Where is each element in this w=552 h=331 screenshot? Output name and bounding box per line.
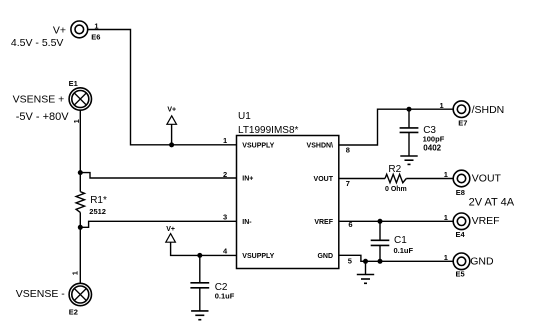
svg-text:E1: E1 [69,79,78,88]
svg-text:GND: GND [317,253,333,260]
svg-text:5: 5 [348,256,352,265]
svg-text:C1: C1 [394,235,407,246]
svg-text:VSUPPLY: VSUPPLY [242,253,274,260]
svg-text:1: 1 [444,170,448,179]
svg-text:E4: E4 [456,230,466,239]
svg-text:2V AT 4A: 2V AT 4A [469,197,515,209]
svg-text:VSUPPLY: VSUPPLY [242,143,274,150]
svg-text:E5: E5 [456,270,465,279]
svg-text:IN+: IN+ [242,176,253,183]
svg-text:E2: E2 [69,307,78,316]
svg-text:E8: E8 [456,188,465,197]
svg-text:/SHDN: /SHDN [472,104,505,116]
svg-text:VSENSE +: VSENSE + [13,94,65,106]
svg-text:4.5V - 5.5V: 4.5V - 5.5V [11,37,64,49]
svg-text:0.1uF: 0.1uF [215,292,235,301]
svg-text:V+: V+ [53,24,66,36]
svg-text:V+: V+ [167,106,176,113]
svg-text:VOUT: VOUT [472,173,502,185]
svg-text:1: 1 [440,101,444,110]
svg-text:-5V - +80V: -5V - +80V [16,111,70,123]
svg-text:1: 1 [72,119,81,123]
svg-text:VOUT: VOUT [314,176,334,183]
svg-text:2512: 2512 [89,207,106,216]
svg-text:GND: GND [470,256,494,268]
svg-text:1: 1 [70,271,79,275]
svg-text:VREF: VREF [314,219,333,226]
svg-text:IN-: IN- [242,219,252,226]
svg-text:E6: E6 [91,32,100,41]
svg-text:0.1uF: 0.1uF [394,246,414,255]
svg-text:100pF: 100pF [423,134,445,143]
svg-text:U1: U1 [238,111,251,122]
svg-text:LT1999IMS8*: LT1999IMS8* [238,125,299,136]
svg-text:1: 1 [444,253,448,262]
svg-text:8: 8 [346,145,350,154]
svg-text:VSENSE -: VSENSE - [16,288,66,300]
svg-text:1: 1 [94,22,98,31]
svg-text:6: 6 [348,220,352,229]
svg-text:1: 1 [444,213,448,222]
svg-text:VSHDN\: VSHDN\ [307,143,334,150]
svg-text:2: 2 [223,170,227,179]
svg-text:1: 1 [223,136,227,145]
svg-text:E7: E7 [458,118,467,127]
svg-text:R1*: R1* [90,195,107,206]
svg-text:V+: V+ [166,226,175,233]
svg-text:R2: R2 [388,164,401,175]
svg-text:7: 7 [346,179,350,188]
svg-text:0 Ohm: 0 Ohm [385,186,407,193]
svg-text:3: 3 [223,212,227,221]
svg-text:0402: 0402 [423,143,441,152]
svg-text:VREF: VREF [472,215,500,227]
